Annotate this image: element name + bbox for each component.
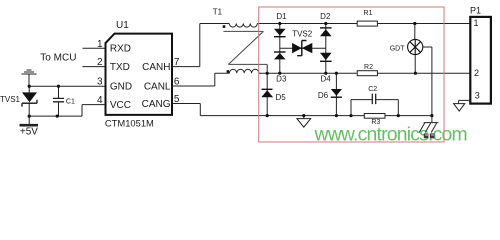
svg-text:CANL: CANL [144, 81, 171, 92]
svg-text:GDT: GDT [390, 45, 406, 52]
svg-text:D4: D4 [320, 74, 331, 83]
svg-text:1: 1 [474, 18, 479, 28]
svg-text:D6: D6 [318, 91, 329, 100]
svg-text:5: 5 [174, 94, 180, 105]
svg-text:+5V: +5V [20, 127, 38, 138]
svg-text:TVS1: TVS1 [0, 95, 21, 104]
svg-text:P1: P1 [470, 6, 481, 16]
svg-text:CTM1051M: CTM1051M [105, 118, 154, 129]
svg-text:RXD: RXD [110, 44, 131, 55]
svg-text:GND: GND [110, 81, 132, 92]
svg-text:4: 4 [97, 95, 103, 106]
svg-text:VCC: VCC [110, 100, 131, 111]
svg-text:CANH: CANH [142, 62, 170, 73]
svg-text:C1: C1 [66, 98, 75, 105]
svg-text:7: 7 [174, 57, 180, 68]
svg-text:2: 2 [97, 57, 103, 68]
svg-text:R3: R3 [371, 119, 380, 126]
svg-text:C2: C2 [368, 86, 377, 93]
svg-text:R2: R2 [364, 64, 373, 71]
svg-text:R1: R1 [364, 10, 373, 17]
svg-text:D3: D3 [276, 74, 287, 83]
svg-text:2: 2 [474, 68, 479, 78]
svg-text:CANG: CANG [142, 99, 171, 110]
svg-text:U1: U1 [116, 20, 129, 31]
svg-text:TXD: TXD [110, 62, 130, 73]
svg-text:D5: D5 [275, 93, 286, 102]
svg-text:D1: D1 [276, 12, 287, 21]
svg-text:T1: T1 [213, 8, 223, 17]
svg-text:6: 6 [174, 77, 180, 88]
svg-text:To MCU: To MCU [40, 53, 76, 64]
svg-text:TVS2: TVS2 [292, 30, 313, 39]
svg-text:3: 3 [475, 91, 480, 101]
svg-text:3: 3 [97, 77, 103, 88]
svg-text:D2: D2 [320, 12, 331, 21]
svg-text:1: 1 [97, 39, 103, 50]
